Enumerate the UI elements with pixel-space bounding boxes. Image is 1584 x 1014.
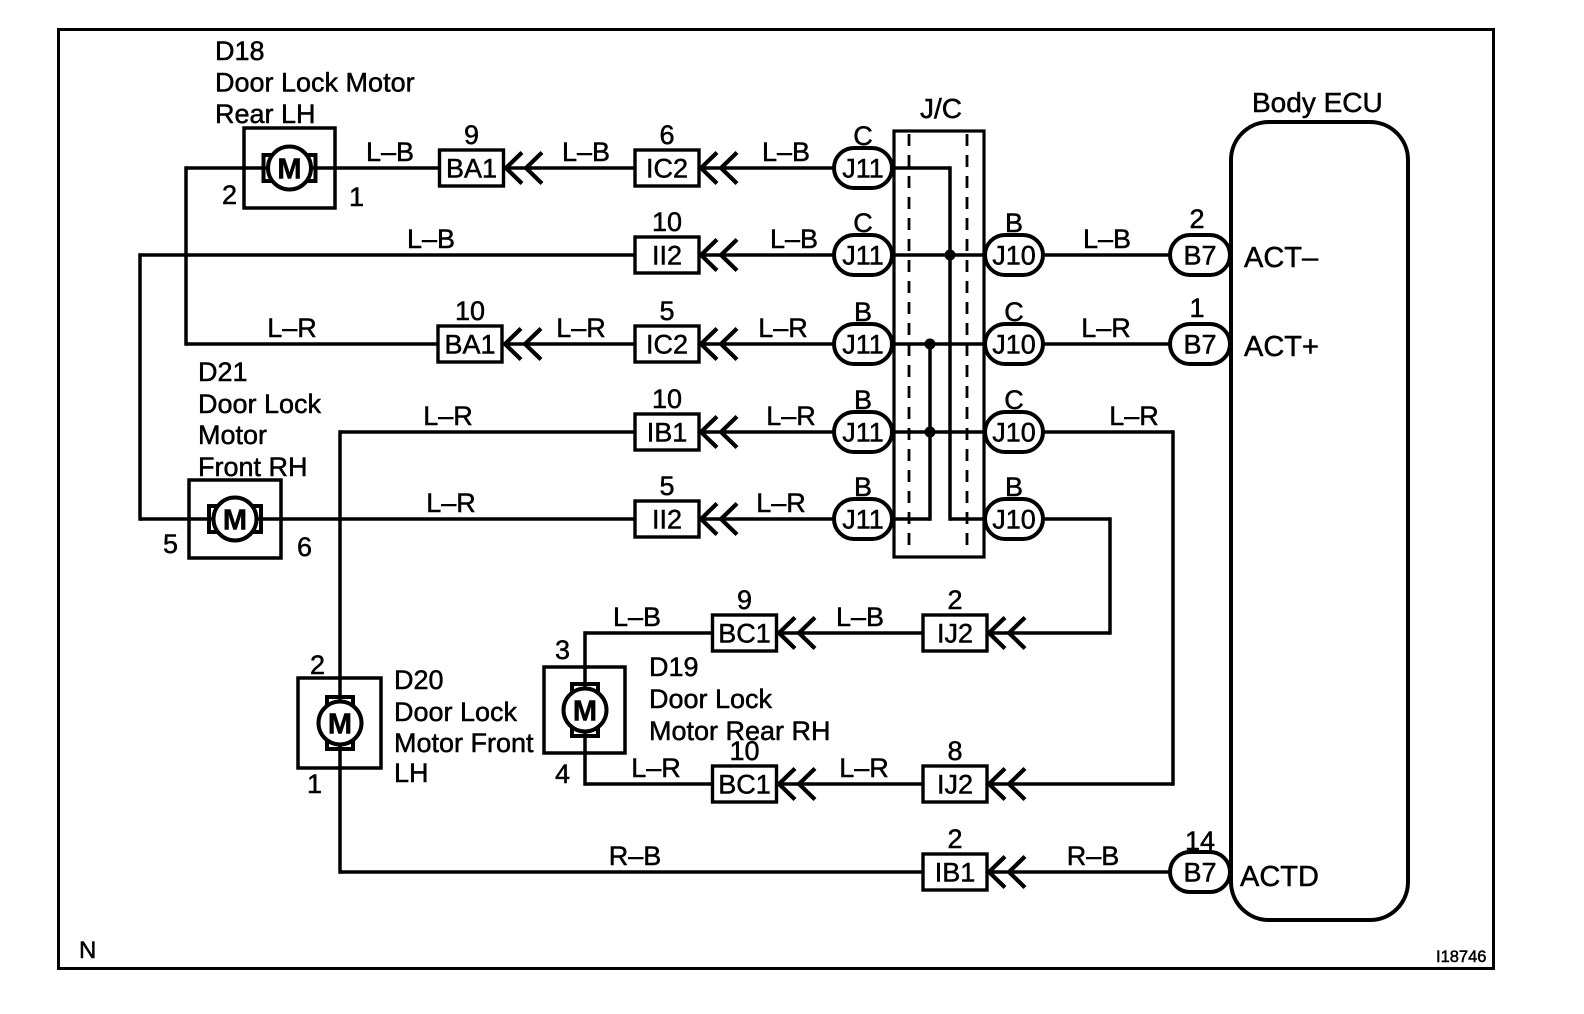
- junction block dashed line right: [966, 134, 969, 554]
- wire row5 D21 to II2: [140, 517, 635, 521]
- svg-text:L–R: L–R: [839, 753, 889, 783]
- svg-text:N: N: [79, 937, 96, 964]
- svg-text:IB1: IB1: [647, 418, 688, 448]
- svg-text:J11: J11: [842, 154, 884, 184]
- wire row6 D19 to BC1: [585, 631, 712, 635]
- connector J11 row4: [834, 412, 892, 452]
- connector BC1 pin10 row7: [713, 766, 777, 802]
- connector J10 row2: [985, 235, 1043, 275]
- arrows BA1 row1: [506, 153, 522, 184]
- svg-text:M: M: [277, 154, 301, 186]
- svg-text:2: 2: [947, 824, 962, 854]
- svg-text:R–B: R–B: [1067, 841, 1120, 871]
- svg-text:5: 5: [659, 471, 674, 501]
- connector B7 pin14 row8: [1170, 852, 1230, 892]
- motor D21 Door Lock Motor Front RH: [189, 480, 281, 558]
- arrows BA1 row3: [505, 329, 521, 360]
- svg-text:1: 1: [307, 769, 322, 799]
- connector J10 row3: [985, 324, 1043, 364]
- wire row2 II2 to J11: [699, 253, 836, 257]
- connector IJ2 pin2 row6: [923, 615, 987, 651]
- svg-text:L–B: L–B: [1083, 224, 1131, 254]
- wire row3 left run: [186, 342, 439, 346]
- svg-text:BA1: BA1: [444, 330, 495, 360]
- svg-text:ACTD: ACTD: [1240, 861, 1319, 893]
- svg-text:Front RH: Front RH: [198, 452, 308, 482]
- svg-text:9: 9: [737, 585, 752, 615]
- svg-text:1: 1: [349, 182, 364, 212]
- wire row2 left corner vertical: [138, 253, 142, 520]
- junction block dashed line left: [908, 134, 911, 554]
- motor D19 Door Lock Motor Rear RH: [544, 667, 625, 753]
- svg-text:Motor Front: Motor Front: [394, 728, 534, 758]
- svg-text:IC2: IC2: [646, 330, 688, 360]
- connector IJ2 pin8 row7: [923, 766, 987, 802]
- node junction row3: [925, 339, 936, 350]
- wire row5 J/C stub to J10: [950, 517, 988, 521]
- svg-text:B: B: [854, 297, 872, 327]
- wire row5 J11 stub into J/C: [890, 517, 930, 521]
- node junction row4: [925, 427, 936, 438]
- connector BC1 pin9 row6: [713, 615, 777, 651]
- wire row1 IC2 to J11: [699, 166, 836, 170]
- connector B7 pin2 row2: [1170, 235, 1230, 275]
- wire row7 D19 to BC1: [585, 782, 712, 786]
- wire J/C internal vertical net1: [948, 166, 952, 520]
- wire J/C internal vertical net2: [928, 342, 932, 520]
- svg-text:II2: II2: [652, 241, 682, 271]
- arrows IJ2 row6: [989, 618, 1005, 649]
- wire row3 IC2 to J11: [699, 342, 836, 346]
- svg-text:IJ2: IJ2: [937, 770, 973, 800]
- arrows II2 row5: [701, 504, 717, 535]
- svg-text:L–B: L–B: [836, 602, 884, 632]
- svg-text:D19: D19: [649, 652, 699, 682]
- svg-text:L–R: L–R: [426, 488, 476, 518]
- svg-text:L–R: L–R: [756, 488, 806, 518]
- svg-text:Door Lock: Door Lock: [394, 697, 518, 727]
- svg-text:5: 5: [659, 296, 674, 326]
- wire row4 J10 right run: [1042, 430, 1173, 434]
- connector BA1 pin9 row1: [440, 150, 504, 186]
- svg-text:J10: J10: [992, 505, 1036, 535]
- svg-text:L–R: L–R: [423, 401, 473, 431]
- arrows II2 row2: [701, 240, 717, 271]
- svg-text:J10: J10: [992, 330, 1036, 360]
- svg-text:LH: LH: [394, 758, 429, 788]
- wire row5 II2 to J11: [699, 517, 836, 521]
- connector J11 row5: [834, 499, 892, 539]
- wire vertical D18.2 down to row3: [184, 166, 188, 345]
- wire row1 BA1 to IC2: [504, 166, 635, 170]
- svg-text:L–B: L–B: [762, 137, 810, 167]
- svg-text:10: 10: [652, 207, 682, 237]
- svg-text:BC1: BC1: [718, 619, 771, 649]
- wire row4 left corner: [340, 430, 635, 434]
- connector J10 row4: [985, 412, 1043, 452]
- svg-text:B7: B7: [1183, 241, 1216, 271]
- connector II2 pin10 row2: [635, 237, 699, 273]
- wire row2 J10 to B7: [1042, 253, 1172, 257]
- arrows IC2 row1: [701, 153, 717, 184]
- svg-text:J11: J11: [842, 241, 884, 271]
- svg-text:D20: D20: [394, 665, 444, 695]
- connector J11 row3: [834, 324, 892, 364]
- connector IC2 pin5 row3: [635, 326, 699, 362]
- arrows IC2 row3: [701, 329, 717, 360]
- svg-text:C: C: [853, 208, 873, 238]
- svg-text:Rear LH: Rear LH: [215, 99, 316, 129]
- svg-text:II2: II2: [652, 505, 682, 535]
- wire row3 BA1 to IC2: [502, 342, 635, 346]
- wire row2 J11 to J10 through J/C: [890, 253, 988, 257]
- svg-text:D21: D21: [198, 357, 248, 387]
- wire row8 IB1 to B7: [987, 870, 1172, 874]
- svg-text:L–R: L–R: [1081, 313, 1131, 343]
- arrows IJ2 row7: [989, 769, 1005, 800]
- wire D18 pin2 to vertical: [186, 166, 268, 170]
- svg-text:10: 10: [652, 384, 682, 414]
- svg-text:Door Lock: Door Lock: [198, 389, 322, 419]
- wire row8 long run: [340, 870, 925, 874]
- wire row3 J11 to J10 through J/C: [890, 342, 988, 346]
- svg-text:ACT–: ACT–: [1244, 242, 1319, 274]
- svg-text:6: 6: [297, 532, 312, 562]
- svg-text:J11: J11: [842, 330, 884, 360]
- svg-text:B: B: [854, 385, 872, 415]
- wire row6 BC1 to IJ2: [777, 631, 925, 635]
- svg-text:L–R: L–R: [1109, 401, 1159, 431]
- wire D18 pin1 to BA1: [310, 166, 439, 170]
- svg-text:B7: B7: [1183, 858, 1216, 888]
- connector II2 pin5 row5: [635, 501, 699, 537]
- svg-text:2: 2: [1189, 204, 1204, 234]
- svg-text:Body ECU: Body ECU: [1252, 87, 1383, 118]
- connector J10 row5: [985, 499, 1043, 539]
- svg-text:9: 9: [464, 120, 479, 150]
- wire row3 J10 to B7: [1042, 342, 1172, 346]
- wire row5 J10 right run: [1042, 517, 1110, 521]
- svg-text:M: M: [328, 709, 352, 741]
- svg-text:BA1: BA1: [446, 154, 497, 184]
- junction block J/C box: [894, 131, 984, 557]
- svg-text:L–R: L–R: [631, 753, 681, 783]
- svg-text:C: C: [1004, 385, 1024, 415]
- svg-text:2: 2: [222, 180, 237, 210]
- wire row6 IJ2 right run: [987, 631, 1110, 635]
- svg-text:M: M: [573, 696, 597, 728]
- arrows IB1 row4: [701, 417, 717, 448]
- svg-text:L–B: L–B: [407, 224, 455, 254]
- svg-text:1: 1: [1189, 293, 1204, 323]
- svg-text:R–B: R–B: [609, 841, 662, 871]
- wire row7 BC1 to IJ2: [777, 782, 925, 786]
- connector IB1 pin10 row4: [635, 414, 699, 450]
- wire row7 IJ2 right run: [987, 782, 1173, 786]
- wire vertical right row4 to row7: [1171, 430, 1175, 785]
- svg-text:L–B: L–B: [366, 137, 414, 167]
- svg-text:M: M: [223, 505, 247, 537]
- svg-text:L–R: L–R: [766, 401, 816, 431]
- connector IC2 pin6 row1: [635, 150, 699, 186]
- connector J11 row2: [834, 235, 892, 275]
- svg-text:B: B: [1005, 472, 1023, 502]
- wire row4 J11 to J10 through J/C: [890, 430, 988, 434]
- svg-text:L–B: L–B: [613, 602, 661, 632]
- wire J/C internal row1 into box: [890, 166, 950, 170]
- connector BA1 pin10 row3: [438, 326, 502, 362]
- svg-text:L–B: L–B: [770, 224, 818, 254]
- svg-text:J11: J11: [842, 505, 884, 535]
- svg-text:2: 2: [310, 650, 325, 680]
- svg-text:Motor: Motor: [198, 420, 267, 450]
- svg-text:IB1: IB1: [935, 858, 976, 888]
- arrows BC1 row7: [779, 769, 795, 800]
- motor D18 Door Lock Motor Rear LH: [244, 128, 335, 208]
- svg-text:BC1: BC1: [718, 770, 771, 800]
- svg-text:8: 8: [947, 736, 962, 766]
- svg-text:C: C: [853, 121, 873, 151]
- wire vertical D19 column: [583, 631, 587, 785]
- svg-text:10: 10: [729, 736, 759, 766]
- svg-text:3: 3: [555, 635, 570, 665]
- svg-text:B: B: [854, 472, 872, 502]
- svg-text:5: 5: [163, 529, 178, 559]
- wire vertical row5 to row6: [1108, 517, 1112, 634]
- svg-text:I18746: I18746: [1436, 948, 1486, 966]
- motor D20 Door Lock Motor Front LH: [298, 678, 381, 768]
- svg-text:Door Lock Motor: Door Lock Motor: [215, 68, 415, 98]
- connector J11 row1: [834, 148, 892, 188]
- svg-text:IJ2: IJ2: [937, 619, 973, 649]
- svg-text:B: B: [1005, 208, 1023, 238]
- node junction row2: [945, 250, 956, 261]
- svg-text:6: 6: [659, 120, 674, 150]
- wire row4 IB1 to J11: [699, 430, 836, 434]
- svg-text:10: 10: [455, 296, 485, 326]
- svg-text:C: C: [1004, 297, 1024, 327]
- svg-text:ACT+: ACT+: [1244, 331, 1319, 363]
- svg-text:L–R: L–R: [267, 313, 317, 343]
- svg-text:B7: B7: [1183, 330, 1216, 360]
- svg-text:D18: D18: [215, 36, 265, 66]
- svg-text:J10: J10: [992, 418, 1036, 448]
- connector IB1 pin2 row8: [923, 854, 987, 890]
- svg-text:J10: J10: [992, 241, 1036, 271]
- svg-text:IC2: IC2: [646, 154, 688, 184]
- arrows BC1 row6: [779, 618, 795, 649]
- svg-text:4: 4: [555, 759, 570, 789]
- svg-text:L–B: L–B: [562, 137, 610, 167]
- svg-text:Door Lock: Door Lock: [649, 684, 773, 714]
- wire vertical D20 column: [338, 430, 342, 873]
- Body ECU box: [1231, 122, 1408, 920]
- connector B7 pin1 row3: [1170, 324, 1230, 364]
- wire row2 long run to II2: [140, 253, 635, 257]
- svg-text:L–R: L–R: [556, 313, 606, 343]
- svg-text:2: 2: [947, 585, 962, 615]
- arrows IB1 row8: [989, 857, 1005, 888]
- svg-text:J/C: J/C: [920, 93, 962, 124]
- svg-text:L–R: L–R: [758, 313, 808, 343]
- svg-text:14: 14: [1185, 826, 1215, 856]
- svg-text:J11: J11: [842, 418, 884, 448]
